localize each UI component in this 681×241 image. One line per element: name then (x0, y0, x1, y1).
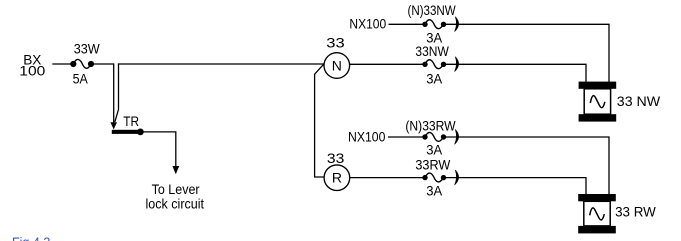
svg-text:100: 100 (19, 63, 45, 79)
connector ) top (455, 17, 459, 32)
wire: relay N to fuse 33NW (350, 63, 425, 65)
svg-text:TR: TR (123, 113, 139, 129)
wire: fuse to TR drop corner (91, 63, 114, 65)
TR operating arrow (110, 63, 118, 129)
wire: fuse to transformer 33RW (right leg) (444, 137, 610, 195)
wire: relay R to fuse 33RW (350, 177, 425, 179)
label BX 100 (feed bus) (19, 52, 45, 79)
svg-text:33W: 33W (74, 41, 101, 57)
svg-text:33 RW: 33 RW (615, 204, 656, 220)
relay N (324, 53, 350, 79)
fuse 33W (70, 59, 94, 68)
svg-text:lock circuit: lock circuit (146, 196, 205, 212)
connector ) third (455, 130, 459, 145)
label To Lever lock circuit (146, 181, 205, 212)
connector ) fourth (455, 170, 459, 185)
wire: NX100 to fuse (N)33NW (389, 23, 426, 25)
svg-text:3A: 3A (426, 71, 443, 87)
svg-text:33RW: 33RW (415, 157, 451, 173)
wire: vertical drop to TR contact (113, 63, 115, 124)
transformer 33 RW (578, 194, 616, 233)
svg-text:3A: 3A (426, 183, 443, 199)
svg-text:Fig 4.3: Fig 4.3 (12, 234, 50, 241)
connector ) second (455, 57, 459, 72)
svg-text:33: 33 (326, 35, 345, 51)
svg-text:NX100: NX100 (348, 129, 386, 145)
arrow to lever lock circuit (172, 166, 179, 174)
svg-text:3A: 3A (426, 142, 443, 158)
svg-text:33: 33 (327, 150, 345, 166)
junction dot on TR bar (137, 129, 144, 136)
svg-text:5A: 5A (73, 70, 89, 86)
svg-text:(N)33RW: (N)33RW (405, 118, 456, 134)
svg-text:NX100: NX100 (349, 16, 386, 32)
fuse (N)33RW (422, 132, 446, 141)
svg-text:33 NW: 33 NW (617, 93, 661, 109)
svg-text:N: N (332, 58, 342, 74)
fuse (N)33NW (422, 20, 446, 29)
wire: fuse to transformer 33RW (left leg) (444, 178, 587, 195)
svg-text:R: R (332, 170, 342, 186)
wire: branch down to relay R (315, 64, 325, 177)
wire: NX100 to fuse (N)33RW (388, 136, 425, 138)
wire: main bus to relay N (118, 63, 324, 65)
fuse 33RW (422, 173, 446, 182)
relay R (324, 165, 350, 191)
svg-text:33NW: 33NW (415, 43, 449, 59)
fuse 33NW (422, 60, 446, 69)
svg-text:(N)33NW: (N)33NW (408, 2, 457, 18)
wire: fuse to transformer 33NW (right leg) (444, 24, 610, 82)
wire: BX100 lead to fuse (52, 63, 73, 65)
wire: TR dot to lever lock arrow (144, 132, 176, 167)
contact bar TR (112, 130, 139, 134)
transformer 33 NW (579, 82, 617, 122)
wire: fuse to transformer 33NW (left leg) (444, 64, 587, 82)
